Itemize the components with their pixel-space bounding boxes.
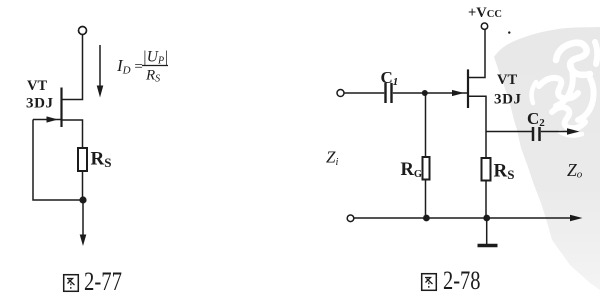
svg-text:RS: RS [494, 161, 515, 183]
svg-text:3DJ: 3DJ [494, 91, 522, 107]
svg-text:Zi: Zi [326, 148, 338, 169]
svg-text:+VCC: +VCC [468, 5, 502, 21]
svg-text:RG: RG [401, 160, 423, 180]
svg-text:RS: RS [91, 149, 112, 171]
svg-text:VT: VT [497, 72, 517, 88]
svg-text:2-77: 2-77 [84, 267, 122, 296]
svg-text:ID =: ID = [116, 56, 143, 77]
svg-text:|UP|: |UP| [143, 49, 169, 67]
svg-text:C1: C1 [381, 68, 399, 88]
svg-text:RS: RS [145, 68, 160, 85]
svg-text:2-78: 2-78 [443, 266, 481, 295]
svg-text:VT: VT [27, 78, 47, 94]
svg-text:3DJ: 3DJ [26, 95, 54, 111]
